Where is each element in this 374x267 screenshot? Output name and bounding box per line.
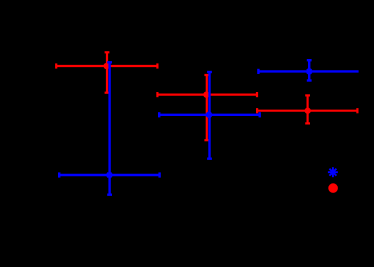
blue series point B1 marker (asterisk) bbox=[106, 172, 113, 179]
blue series point B3 y-error bar bbox=[307, 60, 312, 80]
red series point R3 y-error bar bbox=[305, 95, 310, 123]
blue series point B2 y-error bar bbox=[207, 72, 212, 159]
red series point R2 x-error bar bbox=[157, 92, 257, 97]
red series point R1 x-error bar bbox=[56, 63, 157, 68]
legend key: red series marker (filled circle) bbox=[328, 183, 338, 193]
red series point R2 marker (filled circle) bbox=[203, 91, 209, 97]
red series point R3 marker (filled circle) bbox=[305, 108, 311, 114]
blue series point B1 x-error bar bbox=[59, 172, 159, 177]
red series point R3 x-error bar bbox=[257, 108, 357, 113]
blue series point B2 x-error bar bbox=[159, 112, 260, 117]
legend key: blue series marker (asterisk) bbox=[328, 167, 338, 177]
blue series point B2 marker (asterisk) bbox=[206, 112, 213, 119]
red series point R2 y-error bar bbox=[204, 75, 209, 140]
blue series point B3 marker (asterisk) bbox=[306, 68, 313, 75]
red series point R1 marker (filled circle) bbox=[103, 63, 109, 69]
blue series point B1 y-error bar bbox=[107, 62, 112, 194]
red series point R1 y-error bar bbox=[105, 52, 110, 92]
blue series point B3 x-error bar (right end clipped, no cap) bbox=[258, 69, 358, 74]
